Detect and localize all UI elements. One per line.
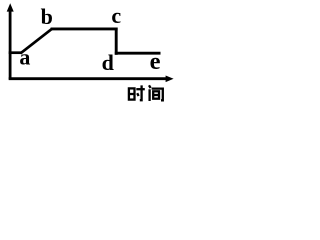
axis label 时间 (time), drawn as strokes — [129, 85, 163, 101]
svg-text:b: b — [41, 4, 53, 29]
日 radical box — [129, 88, 135, 99]
svg-text:d: d — [102, 50, 114, 75]
wire: bottom segment d to e — [115, 52, 161, 55]
svg-text:e: e — [150, 48, 161, 75]
svg-text:a: a — [19, 45, 30, 70]
wire: start segment from axis to node a — [9, 51, 22, 54]
x-axis arrowhead — [166, 76, 174, 83]
寸 dot — [137, 93, 138, 96]
wire: top segment b to c — [51, 27, 118, 30]
寸 vertical with hook — [140, 85, 142, 100]
wire: rising segment a to b — [21, 29, 52, 53]
时 character — [129, 85, 145, 100]
x-axis shaft — [9, 77, 167, 80]
门 top bar and right vertical with hook — [152, 89, 163, 101]
门 dot — [149, 85, 151, 88]
wire: falling segment c to d — [115, 28, 118, 55]
间 character — [149, 85, 163, 101]
y-axis arrowhead — [7, 3, 14, 11]
svg-text:c: c — [111, 3, 121, 28]
y-axis shaft — [9, 9, 12, 80]
寸 top bar — [136, 88, 145, 90]
门 left vertical — [148, 89, 150, 101]
inner 日 — [153, 91, 159, 98]
